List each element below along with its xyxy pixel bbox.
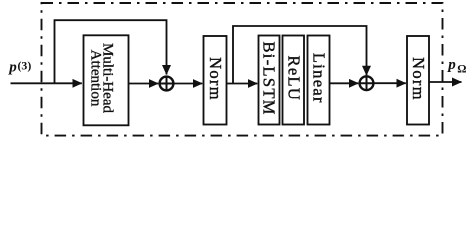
svg-text:Linear: Linear xyxy=(310,53,329,104)
svg-text:p: p xyxy=(7,60,17,76)
svg-text:(3): (3) xyxy=(18,58,32,72)
svg-text:Norm: Norm xyxy=(206,57,225,101)
svg-text:Bi-LSTM: Bi-LSTM xyxy=(260,41,279,115)
svg-text:ReLU: ReLU xyxy=(284,56,303,102)
svg-text:Norm: Norm xyxy=(409,57,428,101)
svg-text:p: p xyxy=(446,57,456,73)
svg-text:Ω: Ω xyxy=(457,63,466,75)
svg-text:Attention: Attention xyxy=(87,50,103,107)
